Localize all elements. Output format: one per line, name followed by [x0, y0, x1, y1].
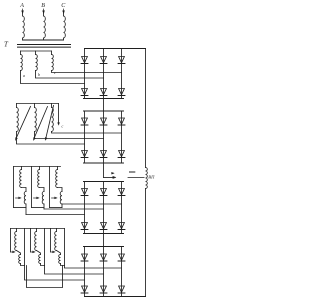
diode B2.3 upper	[118, 118, 125, 125]
bridge B1 leg 3	[121, 49, 123, 99]
diode B1.1 lower	[81, 89, 88, 96]
transformer T primary winding C	[64, 13, 66, 40]
secondary w1 top bus	[21, 50, 52, 52]
w4 unit b zig lead	[41, 264, 45, 266]
w4 unit a zig winding	[19, 255, 21, 264]
w3 unit a zig winding	[24, 192, 26, 205]
w2 vector arrow c	[45, 106, 53, 141]
w4 zig interconnect	[27, 266, 63, 288]
diode B3.2 lower	[100, 223, 107, 230]
w4 unit c connector with arrow	[51, 229, 56, 253]
w3 unit b return leg	[31, 167, 33, 208]
input arrow phase B	[43, 9, 45, 13]
w3 unit c zig winding	[60, 192, 62, 205]
terminal label c1	[62, 124, 64, 129]
w4 unit b connector with arrow	[31, 229, 36, 253]
diode B4.2 upper	[100, 254, 107, 261]
bridge B2 leg 3	[121, 111, 123, 163]
svg-text:ВП: ВП	[148, 175, 155, 180]
terminal label b	[38, 72, 40, 77]
load winding VP	[146, 168, 148, 189]
diode B3.1 upper	[81, 189, 88, 196]
bridge B1 leg 1	[84, 49, 86, 99]
wire w3 phase a to bridge B3	[26, 214, 85, 216]
svg-text:c: c	[62, 124, 64, 129]
w4 unit b zig winding	[39, 255, 41, 264]
bridge B1 leg 2	[103, 49, 105, 99]
bridge B3 leg 1	[84, 182, 86, 234]
diode B2.2 lower	[100, 151, 107, 158]
diode B1.2 lower	[100, 89, 107, 96]
secondary w1 winding b	[36, 51, 38, 71]
bridge B4 positive bus	[84, 246, 124, 248]
w2 terminal lead with arrow	[58, 104, 60, 126]
bridge B1 positive bus	[85, 48, 146, 50]
diode B2.1 upper	[81, 118, 88, 125]
svg-text:B: B	[41, 3, 45, 9]
w4 unit b main winding	[35, 229, 37, 251]
diode B1.2 upper	[100, 57, 107, 64]
negative rail	[145, 189, 147, 297]
diode B3.2 upper	[100, 189, 107, 196]
diode B2.3 lower	[118, 151, 125, 158]
diode B2.2 upper	[100, 118, 107, 125]
w2 vector arrow a	[15, 107, 30, 141]
w3 unit b bottom link	[32, 207, 45, 209]
w3 unit b zig riser	[43, 204, 45, 209]
svg-text:A: A	[19, 3, 24, 9]
secondary w2 winding c	[52, 104, 54, 132]
bridge B2 negative bus	[84, 162, 124, 164]
diode B1.1 upper	[81, 57, 88, 64]
midpoint tap with current arrow	[104, 163, 116, 179]
w3 unit a vector arrow	[16, 197, 22, 199]
w4 unit a zig lead	[21, 264, 25, 266]
load label VP	[148, 175, 155, 180]
bridge B3 positive bus	[84, 181, 124, 183]
bridge B4 leg 2	[103, 247, 105, 297]
secondary w2 top bus	[17, 103, 59, 105]
w3 unit a bottom link	[14, 207, 27, 209]
w3 unit c main winding	[56, 167, 58, 188]
w3 unit b main winding	[38, 167, 40, 188]
svg-text:T: T	[4, 41, 9, 49]
svg-text:a: a	[23, 73, 25, 78]
bridge B2 leg 2	[103, 111, 105, 163]
w4 unit a step	[17, 251, 21, 255]
input arrow phase C	[63, 9, 65, 13]
transformer T primary winding A	[23, 13, 25, 40]
bridge B2 leg 1	[84, 111, 86, 163]
w3 unit a main winding	[20, 167, 22, 188]
diode B3.3 upper	[118, 189, 125, 196]
w3 unit c return leg	[49, 167, 51, 208]
terminal label a	[23, 73, 25, 78]
diode B3.1 lower	[81, 223, 88, 230]
series link B1-B2	[103, 99, 105, 112]
terminal label c	[54, 70, 56, 75]
diode B1.3 upper	[118, 57, 125, 64]
wire w1 phase c to bridge B1	[52, 71, 122, 73]
w3 unit c zig riser	[61, 204, 63, 208]
wire w4 phase b to bridge B4	[45, 266, 104, 275]
w2 vector arrow b	[33, 107, 47, 141]
bridge B4 leg 3	[121, 247, 123, 297]
phase label C	[61, 3, 66, 9]
diode B4.2 lower	[100, 286, 107, 293]
bridge B3 leg 2	[103, 182, 105, 234]
series link B3-B4	[103, 234, 105, 247]
svg-text:C: C	[61, 3, 66, 9]
bridge B1 negative bus	[84, 98, 124, 100]
wire w3 phase b to bridge B3	[44, 208, 104, 210]
diode B4.1 lower	[81, 286, 88, 293]
bridge B4 negative bus	[85, 296, 146, 298]
w3 unit b zig winding	[42, 192, 44, 205]
secondary w2 winding a	[17, 104, 19, 132]
bridge B2 positive bus	[84, 110, 124, 112]
w4 unit b return leg	[44, 229, 46, 266]
wire w2 phase b to bridge B2	[35, 132, 104, 139]
secondary w3 top bus	[14, 166, 61, 168]
diode B4.1 upper	[81, 254, 88, 261]
w3 unit c step	[58, 188, 63, 192]
wire w2 phase c to bridge B2	[52, 132, 122, 134]
w3 unit a zig riser	[25, 204, 27, 215]
transformer core	[18, 45, 71, 48]
secondary w4 top bus	[11, 228, 65, 230]
wire w1 phase a to bridge B1	[21, 71, 85, 84]
bridge B3 leg 3	[121, 182, 123, 234]
diode B4.3 upper	[118, 254, 125, 261]
input arrow phase A	[22, 9, 24, 13]
w4 unit c zig lead	[61, 264, 65, 266]
diode B1.3 lower	[118, 89, 125, 96]
wire w3 phase c to bridge B3	[62, 203, 122, 205]
positive rail	[145, 49, 147, 168]
transformer label T	[4, 41, 9, 49]
w4 unit c return leg	[64, 229, 66, 266]
w4 unit c zig winding	[59, 255, 61, 264]
wire w1 phase b to bridge B1	[36, 71, 104, 79]
w4 unit a main winding	[15, 229, 17, 251]
w4 unit a connector with arrow	[11, 229, 16, 253]
svg-text:b: b	[38, 72, 40, 77]
primary star bus	[23, 39, 64, 41]
w4 unit c main winding	[55, 229, 57, 251]
transformer T primary winding B	[44, 13, 46, 40]
wire w2 phase a to bridge B2	[17, 132, 85, 145]
w3 unit b step	[40, 188, 45, 192]
bridge B4 leg 1	[84, 247, 86, 297]
w3 unit a return leg	[13, 167, 15, 208]
w3 unit c vector arrow	[52, 197, 58, 199]
w3 unit b vector arrow	[34, 197, 40, 199]
phase label A	[19, 3, 24, 9]
secondary w1 winding a	[21, 51, 23, 71]
w4 unit a return leg	[24, 229, 26, 266]
secondary w2 winding b	[35, 104, 37, 132]
phase label B	[41, 3, 45, 9]
secondary w1 winding c	[52, 51, 54, 71]
wire w4 phase c to bridge B4	[65, 266, 122, 269]
w4 unit c step	[57, 251, 61, 255]
w3 unit a step	[22, 188, 27, 192]
polarity dash	[130, 171, 135, 173]
diode B3.3 lower	[118, 223, 125, 230]
bridge B3 negative bus	[84, 233, 124, 235]
w3 unit c bottom link	[50, 207, 63, 209]
wire w4 phase a to bridge B4	[25, 266, 85, 281]
w4 unit b step	[37, 251, 41, 255]
load midpoint wire	[128, 177, 144, 179]
diode B2.1 lower	[81, 151, 88, 158]
diode B4.3 lower	[118, 286, 125, 293]
